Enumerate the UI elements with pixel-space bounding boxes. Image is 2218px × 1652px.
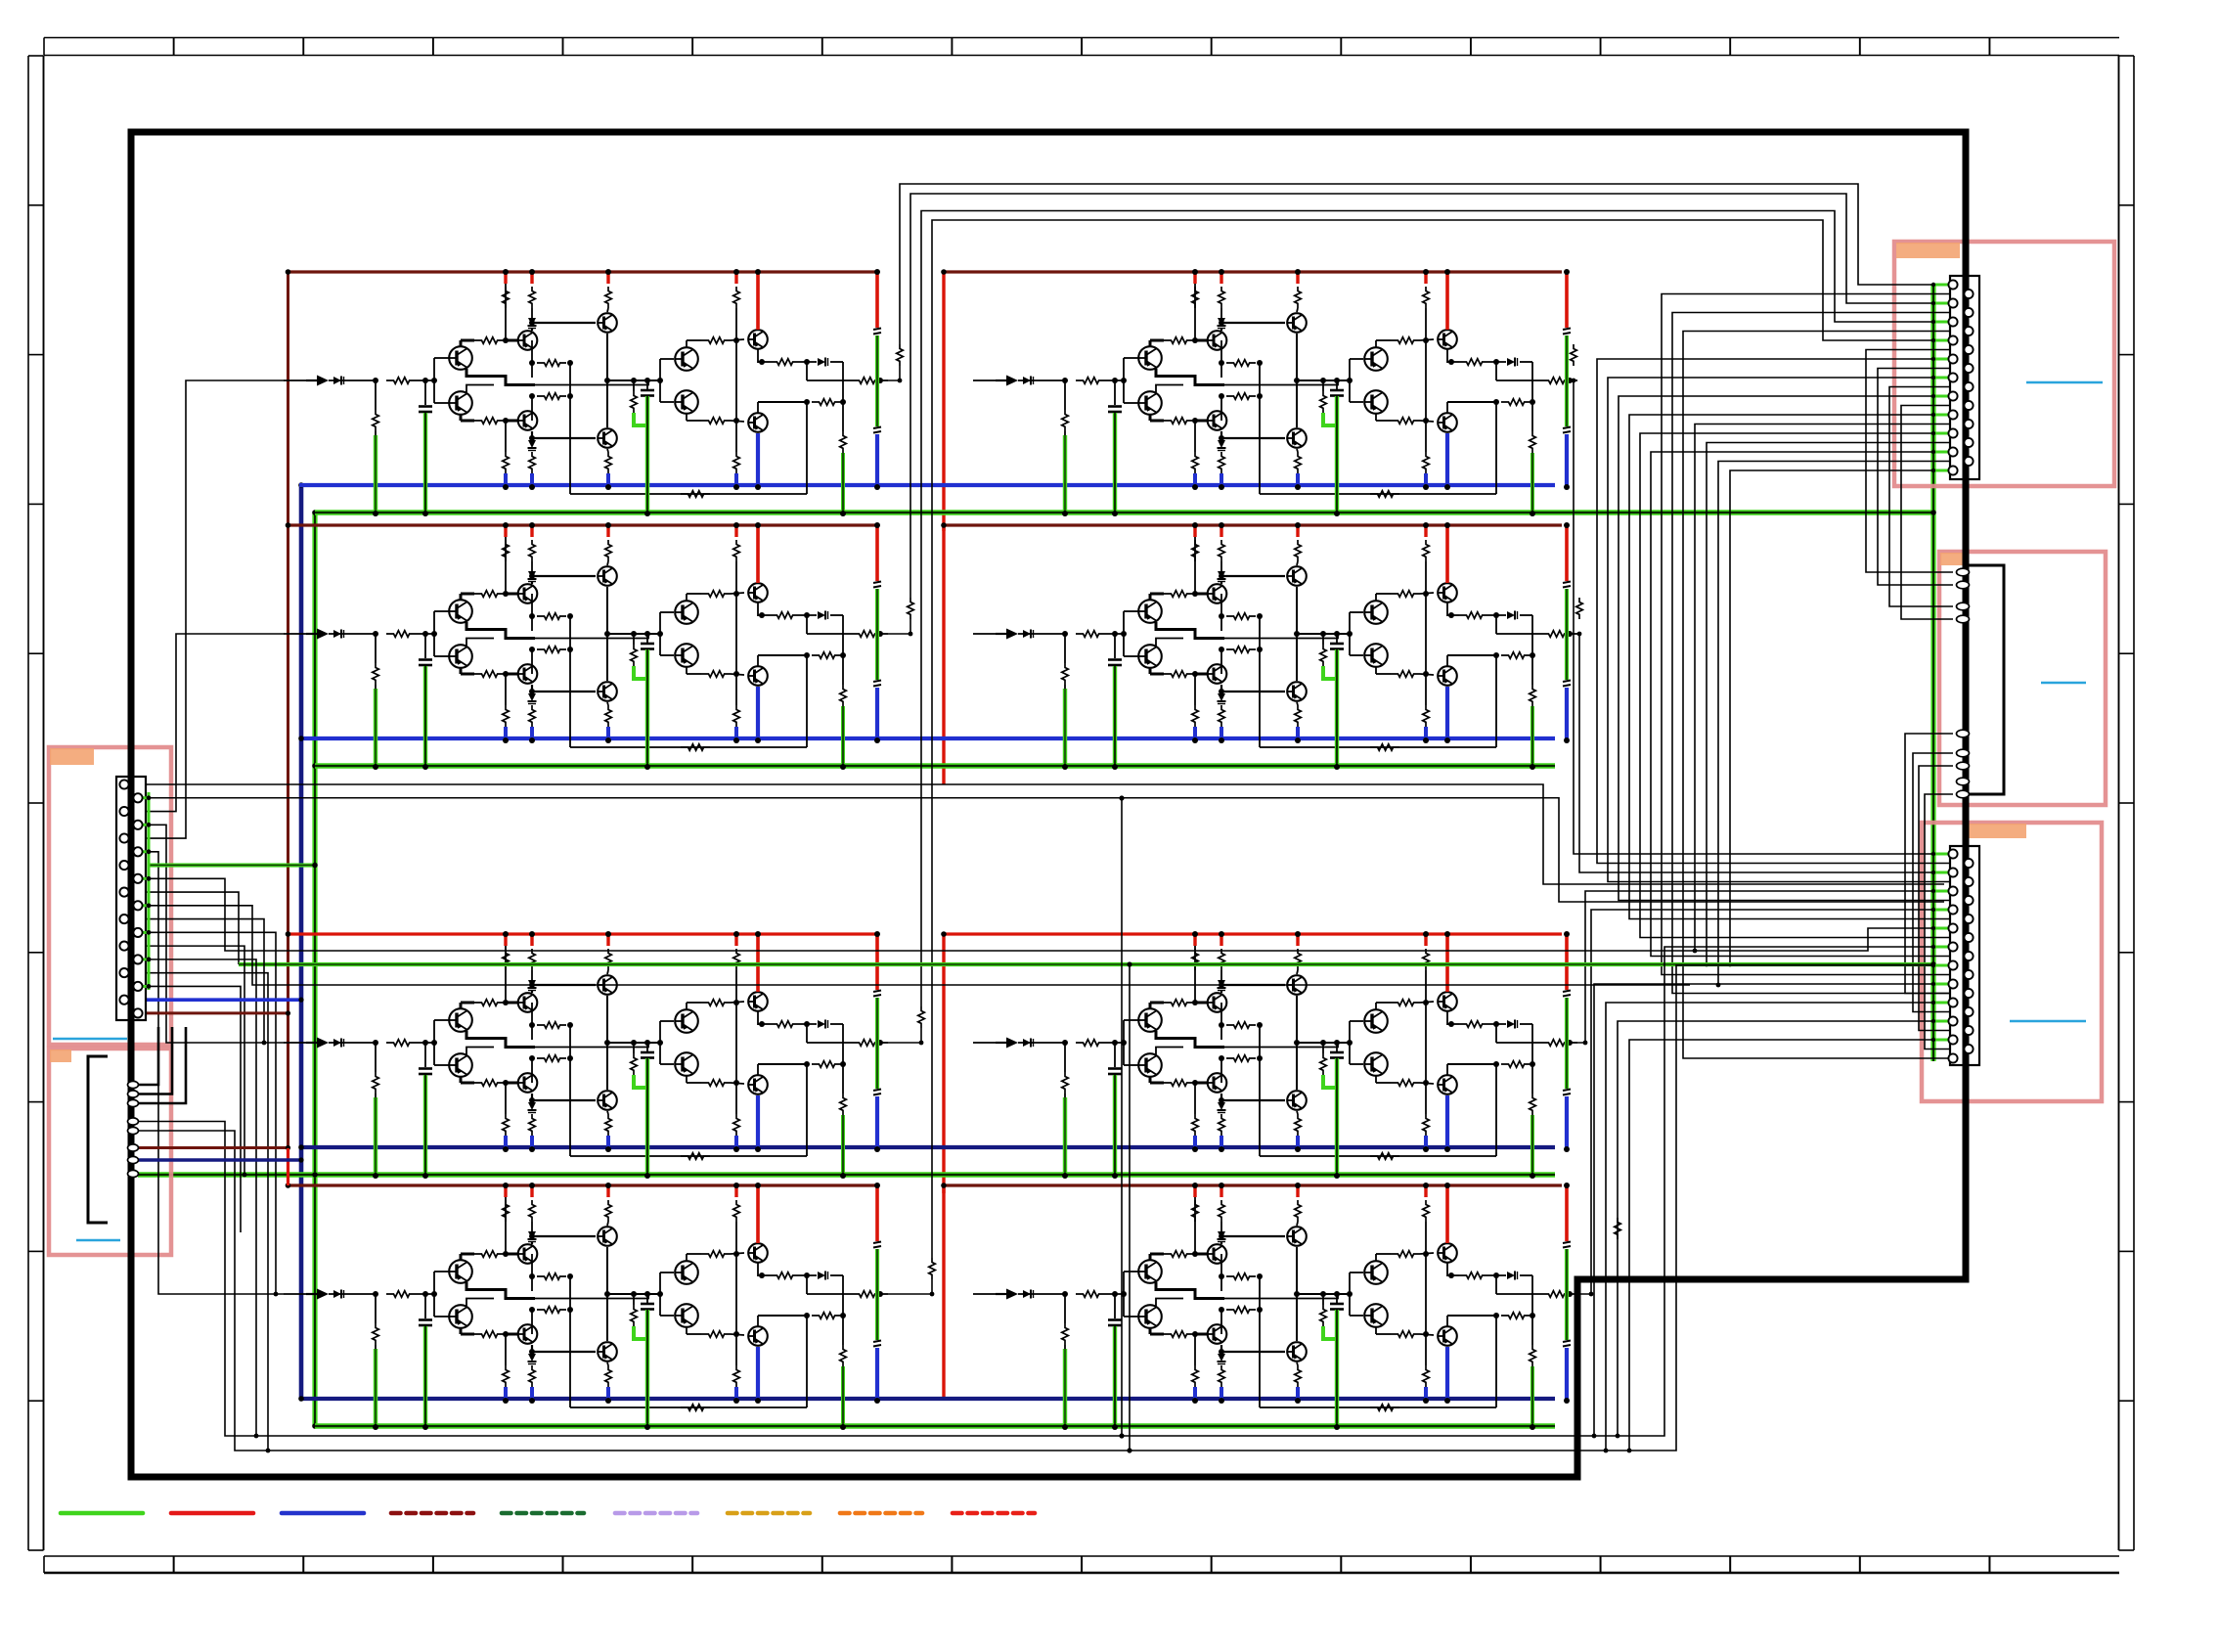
wire mid vertical B — [1129, 964, 1131, 1451]
wire J4 pin to J5 pin — [1919, 766, 1965, 1031]
wire J3 pin to J5 pin — [1651, 452, 1965, 957]
frame tick — [1729, 1556, 1731, 1573]
frame tick — [562, 1556, 564, 1573]
pin J2 — [128, 1156, 139, 1163]
navy bus trunk — [299, 485, 304, 1399]
pin J2 — [128, 1127, 139, 1134]
frame tick — [951, 38, 953, 56]
green pin stub J1 — [142, 931, 149, 934]
pin J3-2 — [1964, 290, 1973, 298]
pin J3-10 — [1964, 364, 1973, 373]
green pin stub — [1933, 890, 1949, 893]
frame tick — [821, 1556, 823, 1573]
frame top outer — [44, 37, 2119, 39]
pin J5-13 — [1948, 960, 1957, 969]
frame tick — [28, 503, 44, 505]
green pin stub — [1933, 1039, 1949, 1042]
pin J5-7 — [1948, 905, 1957, 914]
pin J5-9 — [1948, 923, 1957, 932]
junction trunk-bus — [298, 1144, 304, 1150]
pin J5-5 — [1948, 886, 1957, 895]
frame tick — [691, 1556, 693, 1573]
green bus core row 4 — [315, 1425, 1555, 1427]
junction trunk-rail — [286, 1183, 291, 1188]
amplifier cell pair block L3 — [284, 931, 888, 1179]
pin J1-9 — [119, 888, 128, 897]
wire J3 pin to J5 pin — [1683, 332, 1965, 1059]
pin J5-15 — [1948, 979, 1957, 988]
pin J5-12 — [1964, 952, 1973, 960]
frame tick — [1211, 1556, 1213, 1573]
legend sample #8c1010 — [391, 1511, 473, 1516]
green pin stub J1 — [142, 877, 149, 880]
border bar through J1 — [128, 777, 135, 1020]
pin J4 — [1957, 778, 1970, 785]
pin J4 — [1957, 762, 1970, 770]
wire J1 blue to trunk — [140, 998, 301, 1002]
wire J2 navy — [138, 1158, 301, 1162]
cyan marker J4 — [2041, 682, 2086, 685]
cyan marker J1 — [53, 1038, 127, 1041]
green pin stub J1 — [142, 904, 149, 907]
pin J2 — [128, 1099, 139, 1106]
wire R1 output to J5 pin — [1574, 380, 1949, 854]
wire R2 output to J5 pin — [1577, 634, 1949, 872]
pin J5-18 — [1964, 1007, 1973, 1016]
green pin stub — [1933, 927, 1949, 930]
pin J1-18 — [133, 1008, 142, 1017]
green bus core row 3 — [138, 1174, 1555, 1176]
frame left outer — [27, 56, 29, 1550]
pin J3-18 — [1964, 438, 1973, 447]
blue bus row 2 — [299, 737, 1555, 740]
pin J5-2 — [1964, 859, 1973, 868]
wire R3 output to J5 pin — [1577, 891, 1949, 1043]
pin J3-7 — [1948, 335, 1957, 344]
power rail block L1 — [288, 270, 878, 273]
pin J1-13 — [119, 942, 128, 951]
legend sample #2433cc — [282, 1511, 364, 1516]
junction trunk-bus — [298, 1396, 304, 1402]
wire J4 pin to J5 pin — [1905, 734, 1965, 994]
cyan marker J5 — [2010, 1020, 2086, 1023]
wire J1 fan — [140, 986, 241, 1232]
connector J3 housing — [1950, 276, 1979, 479]
frame tick — [28, 652, 44, 654]
wire block output stub — [888, 1279, 932, 1294]
green pin stub — [1933, 321, 1949, 324]
wire J2 up fan — [138, 1027, 172, 1094]
frame tick — [28, 354, 44, 356]
wire J1 fan — [140, 960, 256, 1436]
wire J5 pin to bottom run — [1629, 1040, 1949, 1451]
wire J3 pin to J5 pin — [1619, 396, 1965, 901]
green pin stub J1 — [142, 985, 149, 988]
frame top inner — [44, 55, 2119, 57]
frame tick — [28, 1250, 44, 1252]
junction green — [1930, 510, 1936, 515]
blue bus row 4 — [299, 1397, 1555, 1401]
wire J3 pin to mid run — [1718, 462, 1965, 986]
frame right outer — [2133, 56, 2135, 1550]
green pin stub — [1933, 983, 1949, 986]
green pin stub — [1933, 414, 1949, 417]
frame bottom outer — [44, 1572, 2119, 1574]
wire J3 pin to mid run — [1707, 443, 1965, 965]
pin J3-19 — [1948, 447, 1957, 456]
legend sample #e41818 — [171, 1511, 253, 1516]
pin J2 — [128, 1144, 139, 1151]
legend sample #b89ae8 — [615, 1511, 697, 1516]
pin J4 — [1957, 730, 1970, 737]
wire J3 pin to J4 pin — [1889, 387, 1965, 607]
green pin stub — [1933, 302, 1949, 305]
blue bus row 3 — [299, 1145, 1555, 1149]
border bar J1-J2 — [128, 1020, 135, 1080]
wire J3 pin to J5 pin — [1662, 294, 1965, 975]
wire J3 pin to mid run — [1730, 470, 1949, 964]
green pin stub — [1933, 432, 1949, 435]
pin J1-2 — [133, 793, 142, 802]
wire block output row to J3 pin — [900, 184, 1949, 344]
green pin stub — [1933, 395, 1949, 398]
green pin stub — [1933, 946, 1949, 949]
pin J1-17 — [119, 996, 128, 1005]
pin J5-21 — [1948, 1035, 1957, 1044]
frame tick — [28, 55, 44, 57]
frame tick — [432, 38, 434, 56]
frame tick — [28, 1400, 44, 1402]
pin J3-6 — [1964, 327, 1973, 335]
wire J1 green to trunk — [149, 863, 315, 867]
frame bottom inner — [44, 1555, 2119, 1557]
junction trunk-rail — [286, 931, 291, 937]
amplifier cell pair block L4 — [284, 1183, 888, 1430]
pin J2 — [128, 1091, 139, 1097]
junction — [312, 510, 318, 515]
wire J2 maroon — [138, 1146, 288, 1149]
junction trunk-green — [312, 1172, 318, 1178]
frame tick — [821, 38, 823, 56]
pin J5-14 — [1964, 970, 1973, 979]
green trunk J1 — [148, 792, 151, 990]
green pin stub J1 — [142, 958, 149, 960]
green pin stub — [1933, 451, 1949, 454]
legend sample #e82018 — [953, 1511, 1035, 1516]
pin J2 — [128, 1118, 139, 1125]
frame tick — [28, 1549, 44, 1551]
green bus row 1 — [315, 510, 1933, 515]
border bar below J2 — [128, 1179, 135, 1477]
amplifier cell pair block R3 — [973, 931, 1577, 1179]
border bar above J3 — [1963, 132, 1970, 277]
green pin stub — [1933, 377, 1949, 380]
pin J4 — [1957, 790, 1970, 798]
connector box J4 outline — [1939, 552, 2106, 805]
frame tick — [28, 802, 44, 804]
connector J5 label block — [1969, 824, 2026, 838]
junction trunk-rail — [286, 522, 291, 528]
pin J3-11 — [1948, 373, 1957, 381]
frame tick — [562, 38, 564, 56]
connector J2 label block — [50, 1049, 71, 1062]
junction trunk-rail — [286, 269, 291, 275]
frame tick — [2119, 354, 2135, 356]
wire J4 pin to J5 pin — [1925, 794, 1965, 1049]
pin J5-3 — [1948, 868, 1957, 876]
wire block output stub — [888, 1028, 921, 1043]
wire J1 to row3 input — [140, 825, 284, 1043]
border bar below J5 — [1963, 1064, 1970, 1279]
green pin stub J1 — [142, 796, 149, 799]
wire J3 pin to J4 pin — [1901, 406, 1965, 620]
pin J5-6 — [1964, 896, 1973, 905]
green trunk right core — [1932, 284, 1934, 1061]
wire J5 pin to bottom run — [1618, 1021, 1949, 1436]
frame tick — [1211, 38, 1213, 56]
legend sample #1a6c30 — [502, 1511, 584, 1516]
amplifier cell pair block L1 — [284, 269, 888, 516]
pin J2 — [128, 1170, 139, 1177]
pin J4 — [1957, 581, 1970, 589]
junction — [312, 1172, 318, 1178]
wire J1 maroon to trunk — [140, 1011, 288, 1014]
frame tick — [1729, 38, 1731, 56]
connector box J1 outline — [49, 747, 171, 1045]
pin J1-7 — [119, 861, 128, 870]
pin J1-11 — [119, 915, 128, 923]
pin J3-13 — [1948, 391, 1957, 400]
frame tick — [1988, 38, 1990, 56]
connector J3 label block — [1896, 243, 1960, 258]
amplifier cell pair block R2 — [973, 522, 1577, 770]
pin J1-12 — [133, 928, 142, 937]
junction — [298, 482, 304, 488]
pin J3-15 — [1948, 410, 1957, 419]
wire J1 to row1 input — [140, 380, 284, 838]
amplifier cell pair block R1 — [973, 269, 1577, 516]
green pin stub — [1933, 871, 1949, 874]
red supply vertical block R1 — [942, 272, 945, 531]
frame tick — [2119, 952, 2135, 954]
frame tick — [2119, 1101, 2135, 1103]
wire J3 pin to J5 pin — [1629, 415, 1965, 919]
frame tick — [1988, 1556, 1990, 1573]
pin J3-8 — [1964, 345, 1973, 354]
bracket J4 — [1969, 565, 2004, 794]
power rail block L4 — [288, 1183, 878, 1186]
border bar through J5 — [1963, 846, 1970, 1065]
green bus row 2 — [315, 763, 1555, 769]
pin J1-5 — [119, 833, 128, 842]
junction trunk-green — [312, 1423, 318, 1429]
frame tick — [2119, 1250, 2135, 1252]
resistor on output route — [929, 1258, 936, 1279]
junction trunk-bus — [298, 736, 304, 741]
pin J1-15 — [119, 968, 128, 977]
red trunk lower section — [287, 1148, 289, 1185]
green pin stub J1 — [142, 850, 149, 853]
pin J1-8 — [133, 874, 142, 883]
wire J1 fan — [140, 932, 276, 1294]
wire J3 pin to J5 pin — [1640, 433, 1965, 938]
green pin stub — [1933, 1002, 1949, 1005]
border bar J4-J5 — [1963, 800, 1970, 847]
legend sample #3fd41c — [61, 1511, 143, 1516]
wire J1 fan — [140, 919, 264, 1043]
pin J3-16 — [1964, 420, 1973, 428]
frame tick — [2119, 204, 2135, 206]
power rail block L2 — [288, 523, 878, 526]
connector box J3 outline — [1894, 242, 2114, 486]
wire J2 up fan — [138, 1027, 186, 1103]
power rail block L3 — [288, 932, 878, 935]
pin J5-23 — [1948, 1053, 1957, 1062]
amplifier cell pair block L2 — [284, 522, 888, 770]
wire J1 fan — [140, 973, 268, 1451]
cyan marker J3 — [2026, 381, 2103, 384]
wire J2 bottom run to J5 — [138, 947, 1949, 1436]
pin J2 — [128, 1081, 139, 1088]
pin J3-20 — [1964, 457, 1973, 466]
frame tick — [951, 1556, 953, 1573]
resistor on output route — [1576, 598, 1583, 619]
wire J2 up fan — [138, 1027, 158, 1085]
green pin stub — [1933, 284, 1949, 287]
pin J1-3 — [119, 807, 128, 816]
amplifier cell pair block R4 — [973, 1183, 1577, 1430]
blue bus row 1 — [299, 483, 1555, 487]
resistor on channel wire — [1615, 1218, 1621, 1239]
frame tick — [173, 38, 175, 56]
pin J5-19 — [1948, 1016, 1957, 1025]
wire block output row to J3 pin — [921, 211, 1949, 1007]
green trunk right — [1930, 284, 1935, 1061]
frame tick — [1859, 38, 1861, 56]
wire R4 output to J5 pin — [1577, 910, 1949, 1294]
connector J5 housing — [1950, 846, 1979, 1065]
frame tick — [1340, 38, 1342, 56]
pin J3-21 — [1948, 466, 1957, 474]
pin J5-10 — [1964, 933, 1973, 942]
wire J3 pin to J5 pin — [1608, 378, 1965, 882]
wire long run A — [140, 784, 1944, 884]
pin J5-17 — [1948, 998, 1957, 1006]
legend sample #f07818 — [840, 1511, 922, 1516]
wire long run B — [140, 798, 1944, 902]
green bus row 3 — [138, 1172, 1555, 1178]
legend sample #d8a018 — [728, 1511, 810, 1516]
wire J5 pin to bottom run — [1594, 984, 1949, 1436]
wire J1 to mid run — [140, 892, 239, 964]
frame tick — [432, 1556, 434, 1573]
frame tick — [28, 952, 44, 954]
border bar J4 mid — [1963, 623, 1970, 731]
wire J3 pin to J4 pin — [1878, 369, 1965, 586]
junction trunk-green — [312, 763, 318, 769]
frame tick — [1340, 1556, 1342, 1573]
green pin stub — [1933, 339, 1949, 342]
resistor on output route — [908, 598, 914, 619]
frame tick — [1470, 1556, 1472, 1573]
pin J4 — [1957, 615, 1970, 623]
green pin stub — [1933, 853, 1949, 856]
connector box J2 outline — [49, 1049, 171, 1255]
frame tick — [28, 1101, 44, 1103]
cyan marker J2 — [76, 1239, 120, 1242]
pin J5-11 — [1948, 942, 1957, 951]
green pin stub — [1933, 1020, 1949, 1023]
pin J4 — [1957, 749, 1970, 757]
connector J4 label block — [1940, 553, 1963, 565]
green pin stub — [1933, 964, 1949, 967]
green trunk core — [314, 513, 316, 1426]
pin J3-4 — [1964, 308, 1973, 317]
wire J5 pin to bottom run — [1606, 1003, 1949, 1451]
frame tick — [302, 38, 304, 56]
frame tick — [2119, 55, 2135, 57]
pin J5-20 — [1964, 1026, 1973, 1035]
wire block output stub — [888, 619, 910, 634]
green bus core row 1 — [315, 512, 1933, 513]
pin J3-5 — [1948, 317, 1957, 326]
frame tick — [2119, 1400, 2135, 1402]
pin J3-9 — [1948, 354, 1957, 363]
pin J4 — [1957, 603, 1970, 610]
wire block output row to J3 pin — [910, 194, 1949, 598]
green bus core row 2 — [315, 765, 1555, 767]
frame tick — [28, 204, 44, 206]
wire J1 fan — [140, 946, 244, 1175]
frame tick — [691, 38, 693, 56]
pin J1-10 — [133, 901, 142, 910]
pin J3-14 — [1964, 401, 1973, 410]
wire block output stub — [888, 366, 900, 380]
frame tick — [2119, 652, 2135, 654]
pin J5-8 — [1964, 915, 1973, 923]
frame tick — [173, 1556, 175, 1573]
frame tick — [1859, 1556, 1861, 1573]
frame tick — [2119, 802, 2135, 804]
wire J1 to row4 input — [140, 852, 284, 1294]
frame tick — [1470, 38, 1472, 56]
frame left inner — [43, 56, 45, 1550]
wire J3 pin to J4 pin — [1866, 350, 1965, 573]
red supply vertical block R3 — [942, 934, 945, 1193]
wire J1 mid run to J5 — [140, 878, 1949, 951]
frame tick — [1600, 38, 1602, 56]
pin J1-1 — [119, 780, 128, 788]
pin J3-17 — [1948, 428, 1957, 437]
resistor on output route — [1571, 344, 1577, 366]
red supply vertical block R2 — [942, 525, 945, 784]
wire mid vertical A — [1121, 798, 1123, 1436]
border bar above J1 — [128, 132, 135, 778]
frame tick — [2119, 503, 2135, 505]
green pin stub — [1933, 909, 1949, 912]
green bus row 4 — [315, 1423, 1555, 1429]
green pin stub — [1933, 469, 1949, 472]
power rail block R2 — [944, 523, 1562, 526]
pin J3-1 — [1948, 280, 1957, 289]
pin J5-22 — [1964, 1045, 1973, 1053]
wire J3 pin to J5 pin — [1672, 313, 1965, 994]
power rail block R3 — [944, 932, 1562, 935]
frame tick — [302, 1556, 304, 1573]
frame right inner — [2118, 56, 2120, 1550]
pin J1-16 — [133, 982, 142, 991]
frame tick — [1081, 38, 1083, 56]
